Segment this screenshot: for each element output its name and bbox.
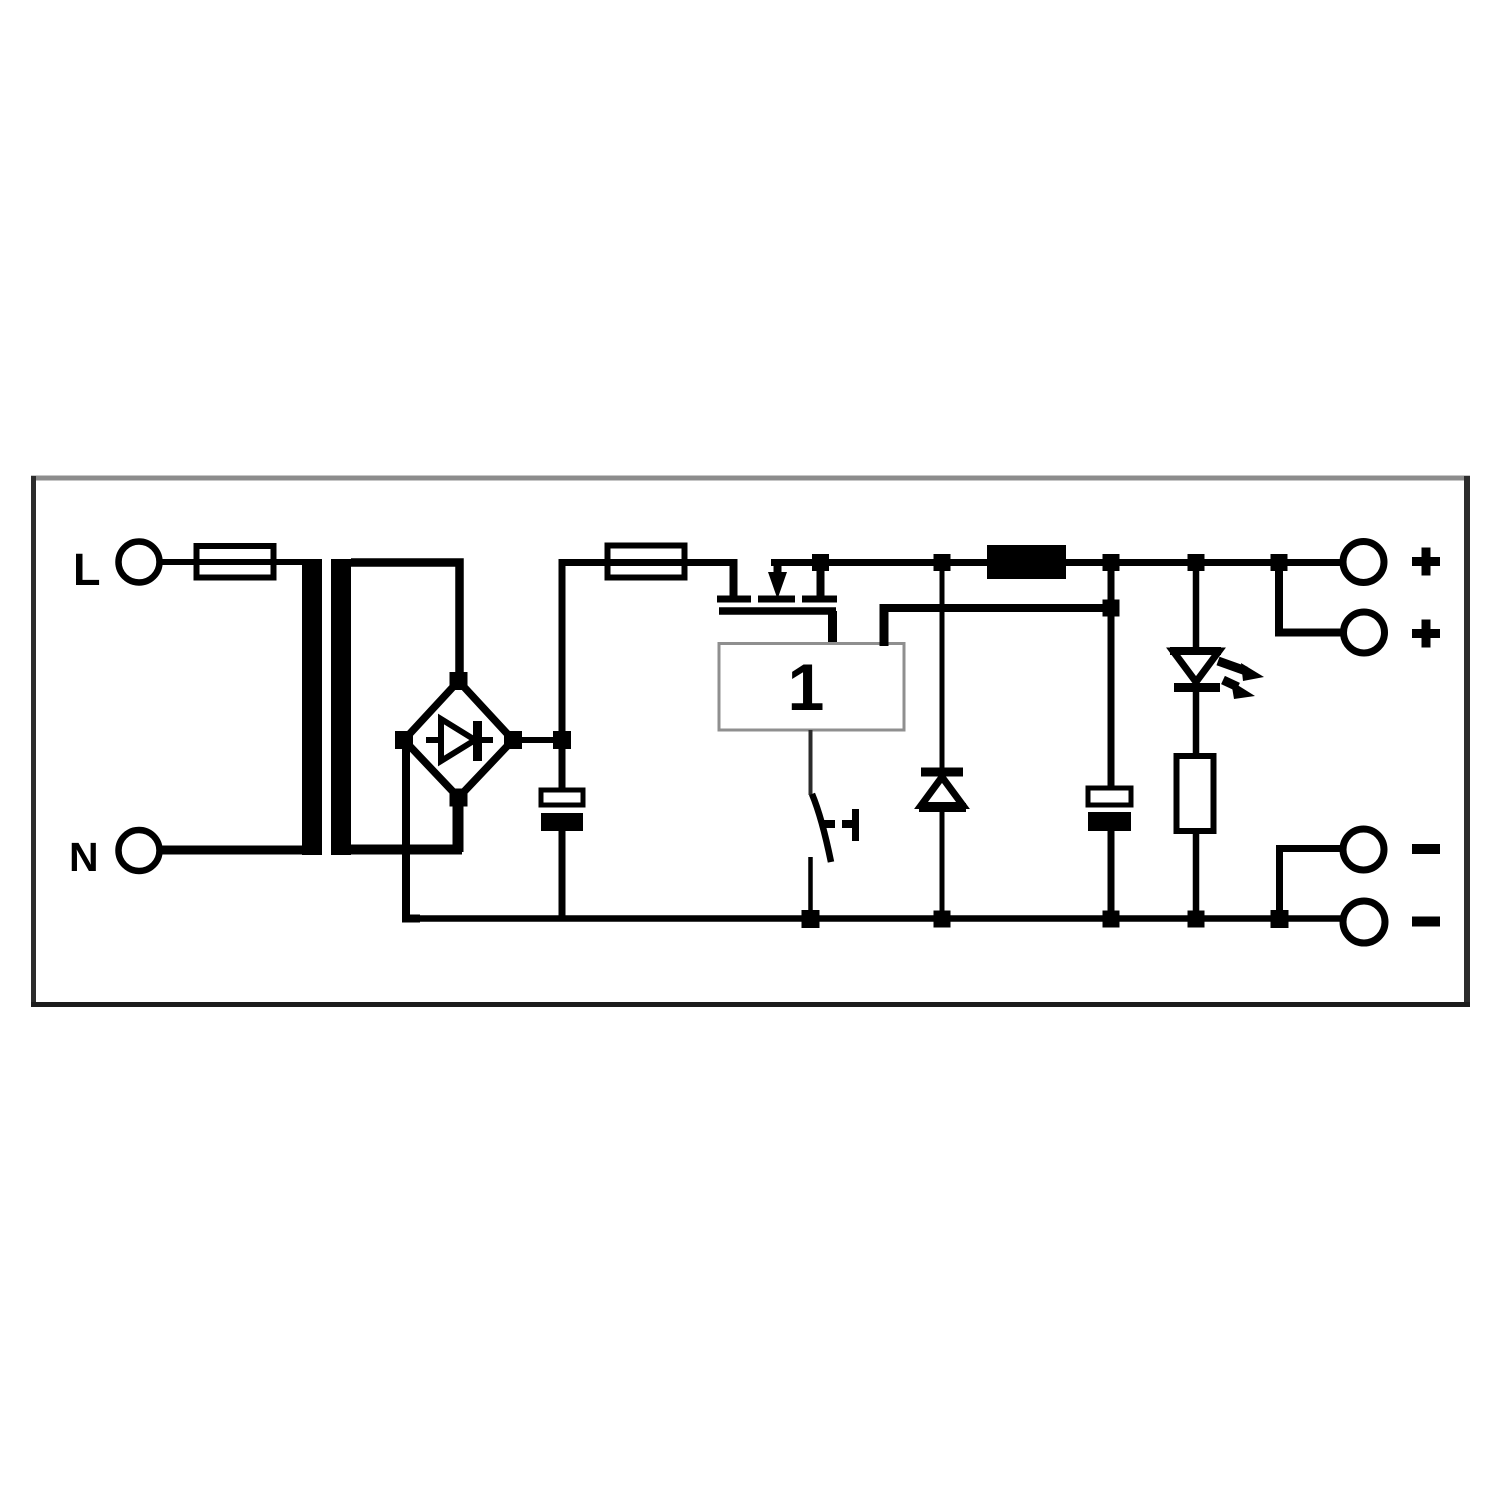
transformer T1 primary bar [302, 559, 322, 855]
node C2 top [1103, 554, 1120, 571]
wire feedback line [884, 604, 1111, 612]
diode D1 triangle [921, 777, 963, 806]
mosfet Q1 gate plate [719, 607, 836, 615]
wire top rail right [771, 559, 1343, 566]
mosfet Q1 source stub [730, 563, 738, 599]
node plus branch [1271, 554, 1288, 571]
inductor L1 [987, 545, 1066, 579]
wire C1 branch upper [559, 559, 566, 790]
diode D1 cathode bar [921, 768, 963, 777]
wire top rail left (C1 to MOSFET source) [559, 559, 738, 566]
wire bridge to C1 node [513, 737, 562, 743]
mosfet Q1 body arrow [768, 572, 787, 599]
transformer T1 secondary bar [331, 559, 351, 855]
node DC plus at C1 [553, 731, 571, 749]
svg-text:1: 1 [788, 650, 825, 724]
LED D2 emission arrow 2 shaft [1223, 680, 1238, 687]
resistor R1 [1177, 756, 1214, 831]
switch S1 actuator dash 1 [820, 820, 835, 828]
control box U1 [719, 644, 904, 731]
switch S1 top lead [809, 730, 813, 795]
wire L terminal to transformer through fuse F1 [160, 559, 311, 565]
bridge rectifier BR1 inner diode cathode bar [473, 721, 482, 761]
node C2 bottom [1103, 911, 1120, 928]
capacitor C2 top plate [1088, 788, 1131, 805]
wire C2 branch lower [1108, 831, 1115, 919]
switch S1 bottom lead [808, 857, 813, 919]
node switch on bottom rail [802, 910, 820, 928]
wire LED to resistor [1193, 682, 1200, 756]
bridge node right [504, 731, 522, 749]
output terminal plus 2 circle [1344, 612, 1385, 653]
LED D2 triangle top bar [1170, 647, 1221, 655]
node LED top [1188, 554, 1205, 571]
mosfet Q1 drain stub [817, 560, 825, 599]
node D1 bottom [934, 911, 951, 928]
fuse F2 [608, 546, 685, 578]
svg-text:L: L [73, 544, 101, 595]
output terminal minus 1 sign [1412, 844, 1440, 854]
output terminal plus 1 circle [1343, 542, 1384, 583]
mosfet Q1 channel segment 1 [717, 596, 751, 603]
outer border frame left [31, 476, 36, 1007]
output terminal minus 2 circle [1343, 901, 1385, 943]
LED D2 cathode bar [1174, 683, 1220, 692]
capacitor C1 top plate [541, 790, 583, 805]
bottom rail [406, 915, 1343, 922]
switch S1 blade [812, 794, 831, 862]
switch S1 actuator bar [852, 809, 859, 841]
wire secondary bottom [351, 845, 462, 855]
outer border frame top [31, 476, 1470, 481]
fuse F1 [197, 546, 274, 578]
output terminal plus 2 sign [1412, 620, 1440, 648]
node minus branch [1271, 910, 1289, 928]
bridge rectifier BR1 diamond [404, 681, 513, 798]
node feedback [1103, 600, 1120, 617]
mosfet Q1 body arrow stem [774, 559, 782, 573]
bridge node left [395, 731, 413, 749]
outer border frame bottom [31, 1002, 1470, 1007]
wire feedback stub from box [880, 604, 889, 646]
wire N terminal to transformer [160, 846, 303, 855]
LED D2 emission arrow 1 shaft [1218, 661, 1246, 671]
node D1 top [934, 554, 951, 571]
diode D1 branch line [940, 563, 945, 920]
svg-text:N: N [69, 834, 99, 880]
bridge node top [450, 672, 468, 690]
wire bridge DC minus drop [406, 744, 420, 919]
wire LED branch upper [1193, 563, 1200, 651]
mosfet Q1 channel segment 3 [802, 596, 837, 603]
wire secondary top [351, 563, 460, 685]
node drain on top rail [812, 554, 829, 571]
output terminal minus 1 circle [1343, 829, 1384, 870]
wire C1 branch lower [559, 831, 566, 919]
wire gate lead [828, 611, 837, 646]
wire resistor to bottom rail [1193, 831, 1200, 919]
bridge rectifier BR1 inner diode line [426, 737, 493, 743]
output terminal minus 2 sign [1412, 917, 1440, 927]
outer border frame right [1464, 476, 1470, 1007]
switch S1 actuator dash 2 [842, 820, 853, 828]
capacitor C1 bottom plate [541, 813, 583, 831]
wire secondary bottom riser to bridge [453, 795, 464, 852]
LED D2 emission arrow 2 head [1231, 681, 1255, 699]
wire to minus 1 [1280, 849, 1344, 920]
terminal N circle [119, 830, 160, 871]
wire to plus 2 [1279, 563, 1343, 633]
output terminal plus 1 sign [1412, 548, 1440, 576]
bridge rectifier BR1 inner diode triangle [441, 719, 475, 761]
mosfet Q1 channel segment 2 [758, 596, 795, 603]
bridge node bottom [450, 789, 468, 807]
wire C2 branch upper [1108, 563, 1115, 789]
terminal L circle [119, 542, 160, 583]
LED D2 emission arrow 1 head [1241, 663, 1264, 681]
diode D1 anode bar [919, 803, 966, 812]
node resistor bottom [1188, 911, 1205, 928]
capacitor C2 bottom plate [1088, 812, 1131, 831]
LED D2 triangle [1173, 651, 1219, 682]
